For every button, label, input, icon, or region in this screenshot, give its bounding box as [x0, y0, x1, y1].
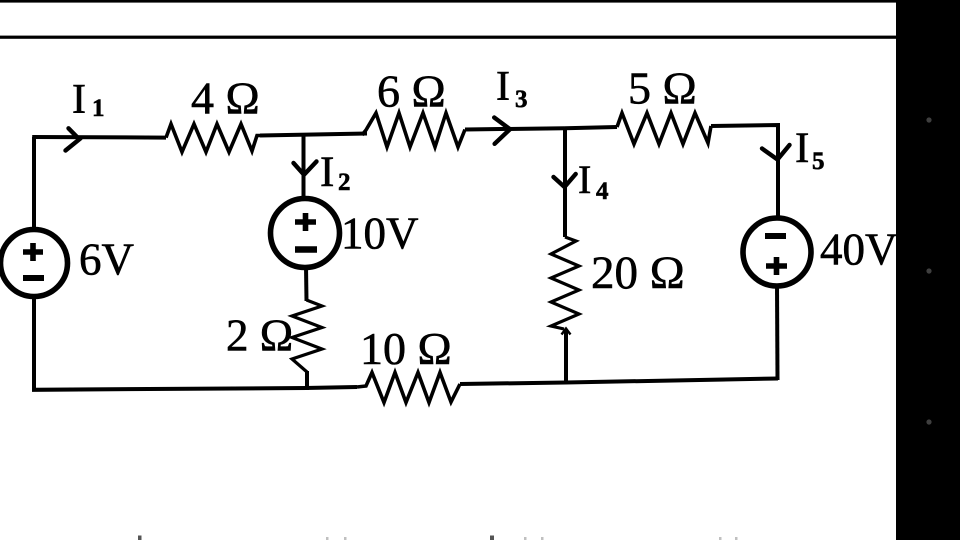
top black strip [0, 0, 960, 3]
bottom cropped text mark 4 [490, 536, 494, 540]
source V3 40V circle [743, 218, 811, 286]
wire: vertical branch to 10V (node A down) [302, 134, 306, 200]
svg-text:I: I [578, 157, 591, 202]
bottom cropped text mark 1 [138, 536, 142, 540]
resistor R 20ohm vertical zigzag [551, 237, 579, 329]
wire: 2ohm bottom stub [305, 371, 309, 390]
svg-text:1: 1 [92, 95, 105, 122]
svg-text:2: 2 [338, 169, 351, 196]
wire: left vertical top (6V top to top-left corner) [32, 137, 36, 228]
svg-text:4 Ω: 4 Ω [191, 73, 260, 124]
wire: bottom right run 10ohm to 40V branch end [460, 379, 778, 385]
resistor R 5ohm zigzag [617, 113, 711, 144]
bottom cropped text mark 5 [524, 537, 527, 540]
sidebar dot 3 [926, 419, 931, 424]
wire: between 4ohm and 6ohm (node A junction) [260, 134, 367, 136]
arrow I1 [66, 128, 80, 150]
source V2 10V circle [271, 199, 340, 268]
svg-text:5 Ω: 5 Ω [628, 63, 697, 114]
bottom cropped text mark 6 [541, 537, 544, 540]
svg-text:5: 5 [812, 148, 825, 175]
svg-text:10V: 10V [341, 209, 419, 259]
svg-text:6 Ω: 6 Ω [377, 66, 446, 117]
bottom cropped text mark 2 [326, 537, 329, 540]
bottom cropped text mark 8 [735, 537, 738, 540]
resistor R 6ohm zigzag [362, 113, 465, 147]
V2 plus sign [295, 213, 316, 231]
svg-text:6V: 6V [79, 235, 134, 285]
wire: node B to 5ohm [565, 127, 617, 128]
V3 minus sign [765, 233, 786, 239]
arrow I4 [554, 174, 576, 187]
wire: node B down to 20ohm [563, 128, 567, 237]
V1 plus sign [23, 243, 43, 261]
wire: 5ohm to top-right corner and down to 40V [711, 125, 778, 217]
arrow I5 [762, 145, 790, 160]
resistor R 4ohm zigzag [166, 124, 260, 152]
V3 plus sign [766, 257, 787, 275]
svg-text:I: I [72, 77, 86, 123]
svg-text:2 Ω: 2 Ω [226, 311, 293, 361]
svg-text:4: 4 [596, 178, 609, 205]
wire: bottom left run continues to 10ohm [305, 387, 357, 388]
wire: top-left horizontal to 4ohm [32, 135, 166, 140]
wire: 10V bottom to 2ohm [304, 266, 309, 301]
svg-text:40V: 40V [820, 225, 898, 275]
sidebar dot 2 [926, 268, 931, 273]
wire: 6V bottom to bottom-left corner [34, 296, 307, 390]
arrow I2 [294, 162, 317, 175]
wire: 6ohm to node B with I3 arrow [465, 128, 565, 129]
wire: 20ohm bottom to bottom wire with small up arrow [564, 330, 568, 383]
V1 minus sign [23, 275, 44, 281]
wire: 40V bottom to bottom wire [775, 286, 780, 380]
svg-text:I: I [795, 125, 809, 172]
V2 minus sign [295, 246, 317, 252]
svg-text:10 Ω: 10 Ω [360, 323, 452, 374]
source V1 6V circle [1, 230, 68, 297]
sidebar dot 1 [926, 117, 931, 122]
svg-text:3: 3 [515, 86, 528, 113]
resistor R 2ohm vertical zigzag [292, 300, 322, 372]
svg-text:I: I [496, 64, 510, 110]
bottom cropped text mark 3 [344, 537, 347, 540]
right black sidebar [896, 0, 960, 540]
svg-text:20 Ω: 20 Ω [591, 247, 685, 299]
horizontal rule [0, 36, 898, 39]
arrow I3 [494, 118, 510, 144]
svg-text:I: I [320, 149, 334, 196]
resistor R 10ohm zigzag [357, 373, 460, 403]
bottom cropped text mark 7 [719, 537, 722, 540]
arrow small up at 20ohm bottom [562, 329, 571, 335]
